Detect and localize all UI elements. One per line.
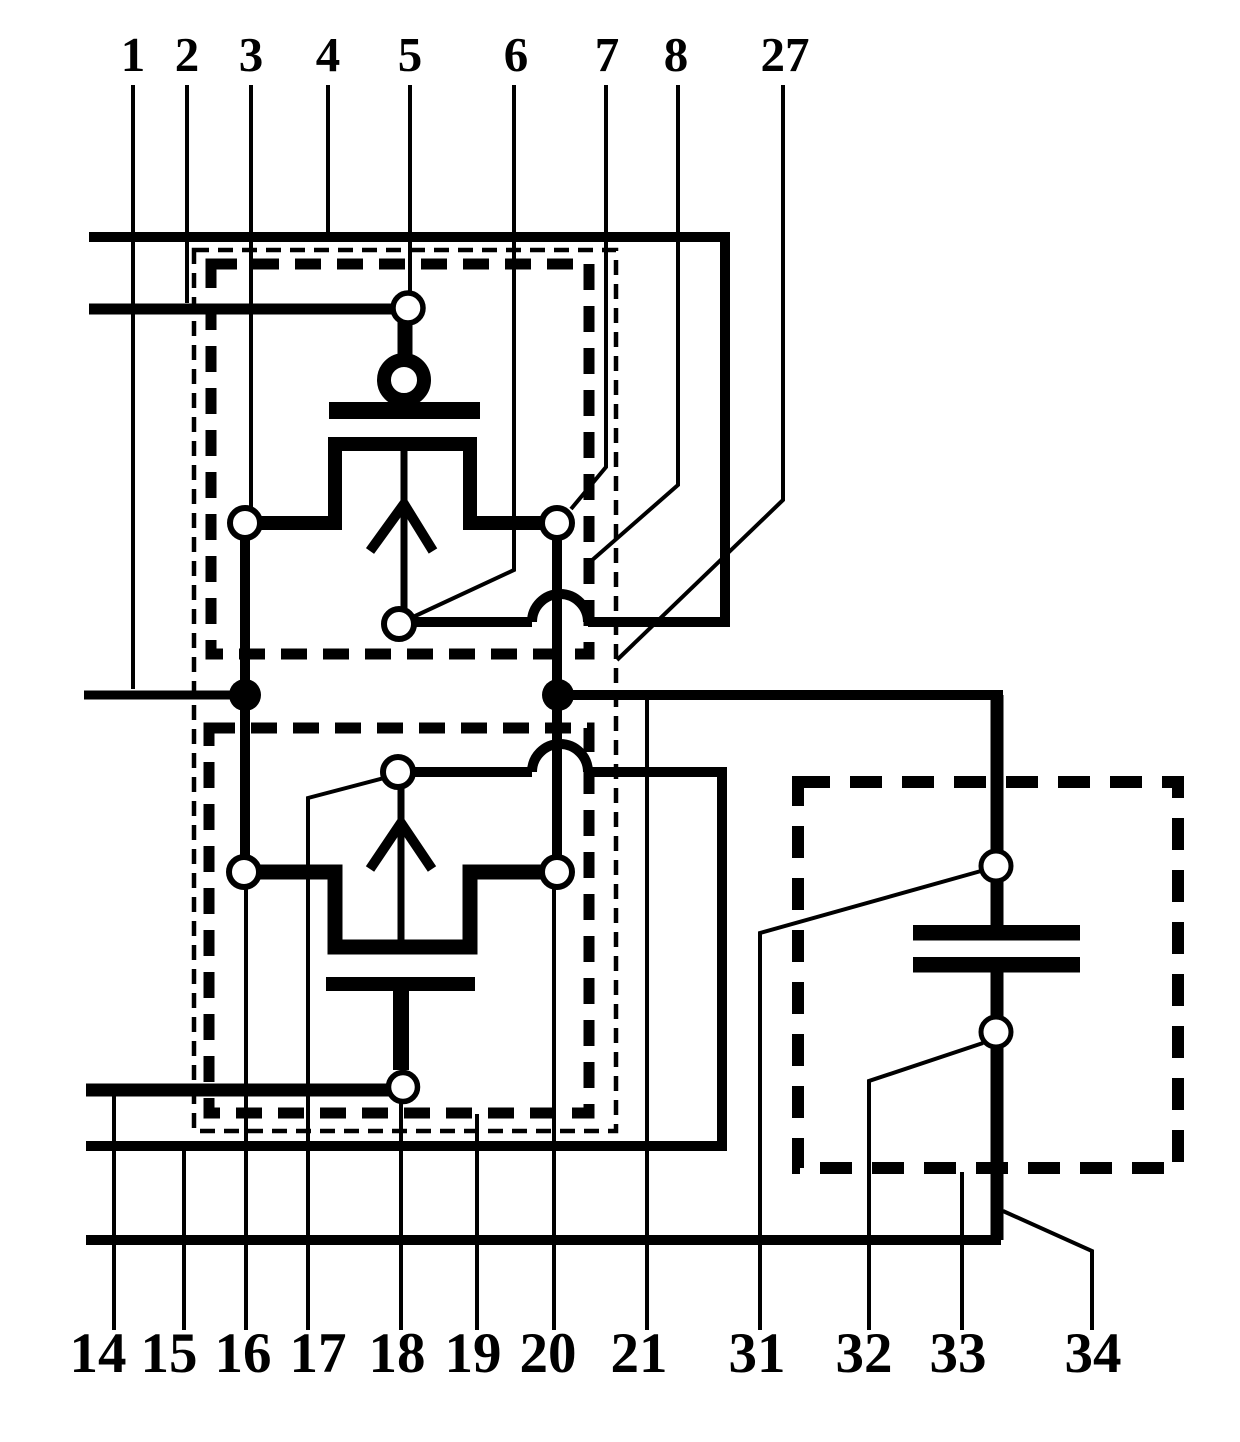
- transistor M1 (top): gate stub: [398, 320, 413, 362]
- label 5: [398, 27, 423, 82]
- label 6: [504, 27, 529, 82]
- junction node (right, output net): [542, 679, 574, 711]
- leader 34: [1003, 1211, 1092, 1330]
- leader 1: [131, 85, 135, 689]
- leader 21: [645, 698, 649, 1330]
- capacitor dashed box: [798, 782, 1178, 1168]
- leader 32: [869, 1043, 983, 1330]
- wire: middle output net, right horizontal segment to capacitor: [558, 690, 1003, 700]
- transistor M1: gate bar: [329, 402, 480, 419]
- label 32: [836, 1322, 893, 1385]
- wire: junction to NMOS left source/drain: [240, 695, 250, 865]
- label 17: [290, 1322, 347, 1385]
- junction node (left, output net): [229, 679, 261, 711]
- node 3: PMOS left source/drain contact: [230, 508, 260, 538]
- transistor M1: channel with source/drain wires: [259, 444, 543, 523]
- label 4: [316, 27, 341, 82]
- svg-text:7: 7: [595, 27, 620, 82]
- transistor M1: gate ring: [384, 360, 424, 400]
- capacitor C1: top plate: [913, 925, 1080, 941]
- transistor M1: body arrow: [370, 504, 433, 551]
- transistor M2 (bottom): channel with source/drain wires: [259, 872, 543, 947]
- label 2: [175, 27, 200, 82]
- leader 2: [185, 85, 189, 303]
- leader 18: [399, 1103, 403, 1330]
- wire: M1 body wire crossover arc: [532, 594, 588, 622]
- transistor M1: body line: [401, 450, 408, 611]
- leader 33: [960, 1172, 964, 1330]
- label 20: [520, 1322, 577, 1385]
- leader 6: [413, 85, 514, 617]
- label 1: [121, 27, 146, 82]
- leader 15: [182, 1142, 186, 1330]
- svg-text:1: 1: [121, 27, 146, 82]
- leader 3: [249, 85, 253, 507]
- wire: PMOS right source/drain down through crossover to junction: [552, 530, 562, 695]
- svg-text:8: 8: [664, 27, 689, 82]
- leader 5: [408, 85, 412, 292]
- wire: middle output net, left horizontal segment: [84, 691, 245, 700]
- svg-text:31: 31: [729, 1322, 786, 1385]
- svg-text:19: 19: [445, 1322, 502, 1385]
- svg-text:34: 34: [1065, 1322, 1122, 1385]
- leader 7: [571, 85, 606, 509]
- label 27: [761, 27, 810, 82]
- node 31: capacitor top contact: [981, 851, 1011, 881]
- transistor M2: gate bar: [326, 977, 475, 991]
- svg-text:5: 5: [398, 27, 423, 82]
- label 7: [595, 27, 620, 82]
- label 8: [664, 27, 689, 82]
- wire: capacitor bottom lead to bottom bus: [991, 963, 1004, 1240]
- wire: M2 body wire left segment: [413, 767, 532, 777]
- terminal 5 circle (top gate contact): [393, 293, 423, 323]
- leader 8: [590, 85, 678, 562]
- svg-text:32: 32: [836, 1322, 893, 1385]
- wire: lower bus with right-side rise to NMOS body wire: [86, 772, 722, 1146]
- label 14: [70, 1322, 127, 1385]
- label 15: [141, 1322, 198, 1385]
- wire: junction to NMOS right source/drain: [552, 695, 562, 865]
- svg-text:18: 18: [369, 1322, 426, 1385]
- leader 20: [552, 888, 556, 1330]
- svg-text:15: 15: [141, 1322, 198, 1385]
- transistor M2: body arrow: [370, 823, 432, 869]
- label 18: [369, 1322, 426, 1385]
- svg-text:17: 17: [290, 1322, 347, 1385]
- svg-text:2: 2: [175, 27, 200, 82]
- node 20: NMOS right source/drain contact: [542, 857, 572, 887]
- wire: M1 body wire left segment: [413, 617, 532, 627]
- svg-text:20: 20: [520, 1322, 577, 1385]
- node 16: NMOS left source/drain contact: [229, 857, 259, 887]
- wire: capacitor top lead from output net: [991, 695, 1004, 935]
- leader 17: [308, 778, 384, 1330]
- transistor M2: body line: [398, 785, 405, 940]
- outer dashed box (thin): [194, 250, 616, 1131]
- label 16: [215, 1322, 272, 1385]
- svg-text:6: 6: [504, 27, 529, 82]
- node 17: NMOS body contact: [383, 757, 413, 787]
- label 33: [930, 1322, 987, 1385]
- capacitor C1: bottom plate: [913, 957, 1080, 973]
- leader 19: [475, 1114, 479, 1330]
- terminal 18 circle (bottom gate contact): [389, 1073, 418, 1102]
- leader 16: [244, 888, 248, 1330]
- svg-text:3: 3: [239, 27, 264, 82]
- node 32: capacitor bottom contact: [981, 1017, 1011, 1047]
- label 3: [239, 27, 264, 82]
- leader 4: [326, 85, 330, 233]
- node 6: PMOS body contact: [384, 609, 414, 639]
- svg-text:21: 21: [611, 1322, 668, 1385]
- svg-text:16: 16: [215, 1322, 272, 1385]
- transistor M2: gate stub: [393, 991, 409, 1070]
- label 31: [729, 1322, 786, 1385]
- label 34: [1065, 1322, 1122, 1385]
- label 19: [445, 1322, 502, 1385]
- wire: bottom supply bus: [86, 1235, 1001, 1245]
- wire: gate line 1 (top horizontal to terminal 5): [89, 304, 395, 315]
- wire: M2 body wire crossover arc: [532, 744, 588, 772]
- svg-text:14: 14: [70, 1322, 127, 1385]
- wire: gate line 2 (bottom horizontal to terminal 18): [86, 1084, 389, 1097]
- node: PMOS right source/drain contact: [542, 508, 572, 538]
- wire: PMOS left source/drain to junction: [240, 530, 250, 695]
- svg-text:33: 33: [930, 1322, 987, 1385]
- leader 14: [112, 1087, 116, 1330]
- wire: top supply rail with right-side drop to PMOS body wire: [89, 237, 725, 622]
- svg-text:4: 4: [316, 27, 341, 82]
- leader 27: [617, 85, 783, 660]
- inner dashed box (bottom transistor, thick): [209, 728, 589, 1113]
- svg-text:27: 27: [761, 27, 810, 82]
- inner dashed box (top transistor, thick): [211, 264, 589, 654]
- label 21: [611, 1322, 668, 1385]
- leader 31: [760, 871, 981, 1330]
